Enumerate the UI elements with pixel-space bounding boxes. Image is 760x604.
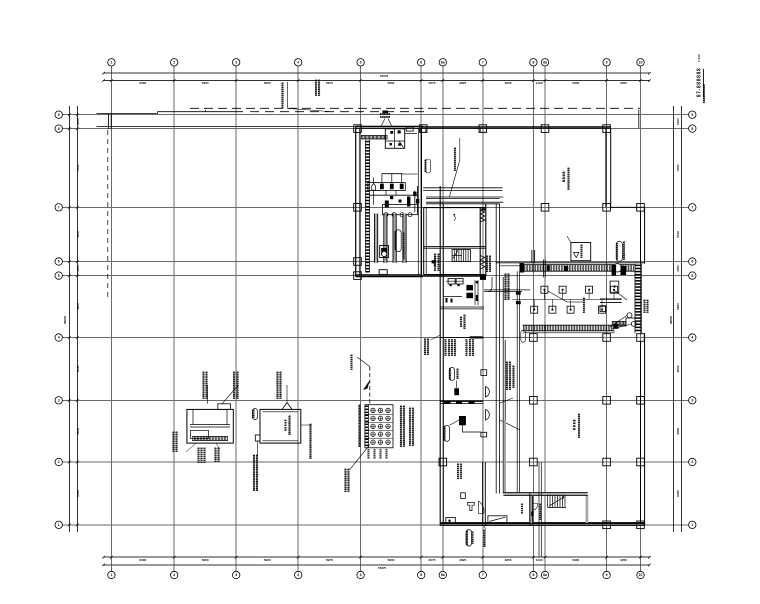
svg-text:6a: 6a [441,573,445,577]
svg-text:7: 7 [691,206,693,210]
svg-text:1:100: 1:100 [697,54,701,62]
svg-text:6000: 6000 [139,558,146,562]
svg-text:5: 5 [58,274,60,278]
svg-text:5900: 5900 [572,558,579,562]
svg-text:8888888888: 8888888888 [394,231,398,250]
svg-text:10: 10 [639,61,643,65]
svg-text:5150: 5150 [76,231,80,238]
svg-text:888888888888888: 888888888888888 [205,371,209,399]
svg-text:5975: 5975 [326,81,333,85]
svg-text:88888888888: 88888888888 [288,415,292,435]
svg-text:5975: 5975 [326,558,333,562]
svg-text:9: 9 [606,573,608,577]
svg-text:888888888888: 888888888888 [512,365,516,388]
svg-text:1350: 1350 [676,118,680,125]
svg-text:6: 6 [58,260,60,264]
svg-text:88888888888: 88888888888 [567,167,571,190]
svg-text:8888888888888888888888888888: 8888888888888888888888888888 [358,404,361,447]
svg-text:888888888: 888888888 [317,79,321,96]
svg-text:4: 4 [691,336,693,340]
svg-text:88888: 88888 [252,409,255,418]
svg-text:5950: 5950 [264,558,271,562]
svg-text:8888: 8888 [572,419,576,430]
svg-text:5950: 5950 [202,81,209,85]
svg-text:88888888888888888888: 88888888888888888888 [309,423,313,459]
svg-text:888888: 888888 [455,368,459,379]
svg-text:8888888888888888888888: 8888888888888888888888 [402,405,406,447]
svg-text:9: 9 [691,113,693,117]
svg-text:6050: 6050 [676,490,680,497]
svg-text:5: 5 [360,573,362,577]
svg-text:8888888: 8888888 [580,244,584,258]
svg-text:8: 8 [58,127,60,131]
svg-text:39800: 39800 [669,315,673,324]
svg-text:888888888: 888888888 [615,243,619,260]
svg-text:2075: 2075 [429,558,436,562]
svg-text:5150: 5150 [676,231,680,238]
svg-text:8a: 8a [543,61,547,65]
svg-text:4: 4 [58,336,60,340]
svg-text:5900: 5900 [572,81,579,85]
svg-text:5: 5 [691,274,693,278]
svg-text:6050: 6050 [676,365,680,372]
svg-text:3: 3 [58,399,60,403]
svg-text:2075: 2075 [429,81,436,85]
svg-text:8888: 8888 [562,172,566,182]
svg-text:3: 3 [691,399,693,403]
svg-text:88888888: 88888888 [459,463,463,479]
svg-text:5950: 5950 [676,303,680,310]
svg-text:8888888: 8888888 [449,367,452,379]
svg-text:5950: 5950 [264,81,271,85]
svg-text:6a: 6a [441,61,445,65]
svg-text:88888: 88888 [374,448,377,458]
svg-text:8888888888: 8888888888 [702,84,706,103]
svg-text:88888888: 88888888 [462,314,466,329]
svg-text:1: 1 [110,61,112,65]
svg-text:7550: 7550 [676,164,680,171]
svg-text:8: 8 [532,61,534,65]
svg-text:888888888: 888888888 [471,339,475,356]
svg-text:888888888888888: 888888888888888 [507,273,511,300]
svg-text:7550: 7550 [76,164,80,171]
svg-text:1100: 1100 [536,81,543,85]
svg-text:8: 8 [691,127,693,131]
svg-text:888888888888888888888: 888888888888888888888 [255,454,259,491]
svg-text:888888888: 888888888 [426,338,430,355]
svg-text:9: 9 [58,113,60,117]
svg-text:3: 3 [235,61,237,65]
svg-text:1100: 1100 [536,558,543,562]
svg-text:8888888888888: 8888888888888 [402,232,406,259]
svg-text:2: 2 [58,460,60,464]
svg-text:8888888888: 8888888888 [482,529,486,547]
svg-text:6050: 6050 [76,490,80,497]
svg-text:888888888888: 888888888888 [577,413,581,438]
svg-text:39800: 39800 [63,315,67,324]
svg-text:8: 8 [532,573,534,577]
svg-text:6050: 6050 [76,365,80,372]
svg-text:5950: 5950 [676,427,680,434]
svg-text:88888: 88888 [520,503,524,514]
svg-text:88888: 88888 [380,448,383,458]
svg-text:5: 5 [360,61,362,65]
svg-text:57975: 57975 [380,74,389,78]
svg-text:88888888: 88888888 [216,447,220,462]
svg-text:888888: 888888 [424,159,428,172]
svg-text:1: 1 [691,523,693,527]
svg-text:2: 2 [173,573,175,577]
svg-text:88888: 88888 [386,448,389,458]
svg-text:1350: 1350 [76,265,80,272]
svg-text:88888888: 88888888 [582,297,586,313]
svg-text:2: 2 [691,460,693,464]
svg-text:1: 1 [110,573,112,577]
svg-text:5950: 5950 [76,427,80,434]
svg-text:4850: 4850 [505,558,512,562]
svg-text:9: 9 [606,61,608,65]
svg-text:8888888: 8888888 [470,531,474,544]
svg-text:6: 6 [420,61,422,65]
svg-text:10: 10 [639,573,643,577]
svg-text:7: 7 [482,573,484,577]
svg-text:6: 6 [420,573,422,577]
svg-text:7: 7 [482,61,484,65]
svg-text:2: 2 [173,61,175,65]
svg-text:88888: 88888 [368,448,371,458]
svg-text:3825: 3825 [459,558,466,562]
svg-text:88888888: 88888888 [349,354,353,370]
svg-text:88888: 88888 [459,316,463,327]
svg-text:888888888: 888888888 [453,339,457,356]
svg-text:6: 6 [691,260,693,264]
svg-text:888888888888888: 888888888888888 [235,371,239,399]
svg-text:88888888888: 88888888888 [174,431,178,452]
svg-text:1350: 1350 [676,265,680,272]
svg-text:888888888: 888888888 [466,530,469,545]
svg-text:8888888888: 8888888888 [622,241,626,260]
svg-text:88888888: 88888888 [202,447,206,463]
svg-text:3250: 3250 [620,81,627,85]
svg-text:6000: 6000 [139,81,146,85]
svg-text:57975: 57975 [378,566,387,570]
svg-text:8888888: 8888888 [646,299,650,313]
svg-text:888888888888: 888888888888 [453,147,457,171]
svg-text:3825: 3825 [459,81,466,85]
svg-text:5800: 5800 [387,81,394,85]
svg-text:5800: 5800 [387,558,394,562]
svg-text:1350: 1350 [76,118,80,125]
svg-text:5950: 5950 [76,303,80,310]
svg-text:888888888888888: 888888888888888 [279,371,283,399]
svg-text:3250: 3250 [620,558,627,562]
svg-text:8888888888888: 8888888888888 [346,468,350,492]
svg-text:5950: 5950 [202,558,209,562]
svg-text:8888888888888: 8888888888888 [281,82,285,108]
svg-text:888888888888888888888: 888888888888888888888 [411,407,415,446]
svg-text:88888: 88888 [283,419,287,431]
svg-text:3: 3 [235,573,237,577]
svg-text:7: 7 [58,206,60,210]
svg-text:888888888: 888888888 [444,425,447,440]
svg-text:1: 1 [58,523,60,527]
svg-text:4850: 4850 [505,81,512,85]
svg-text:8a: 8a [543,573,547,577]
svg-text:4: 4 [297,61,299,65]
svg-text:4: 4 [297,573,299,577]
svg-text:888888888: 888888888 [488,255,492,272]
